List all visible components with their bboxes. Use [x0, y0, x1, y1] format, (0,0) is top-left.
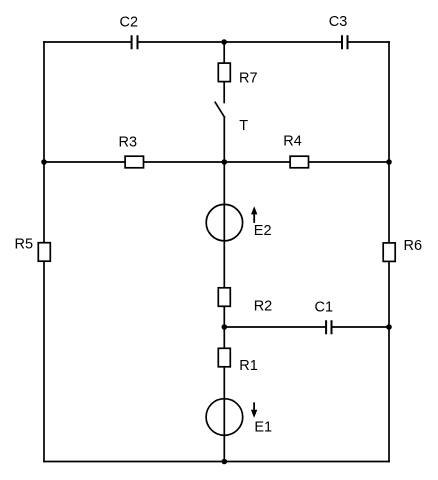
wire top rail left of C2: [44, 41, 131, 43]
capacitor C1 plates: [326, 320, 331, 334]
wire C1 branch left of plates: [224, 326, 325, 328]
source E2 arrow (up): [251, 206, 257, 223]
svg-text:C2: C2: [120, 14, 139, 30]
wire left rail: [43, 42, 45, 462]
junction center C1 branch: [222, 324, 228, 330]
svg-text:T: T: [239, 118, 248, 134]
switch T blade: [215, 102, 224, 117]
source E1 circle: [206, 399, 243, 436]
capacitor C3 plates: [342, 35, 348, 49]
resistor R5: [38, 243, 50, 262]
svg-text:R3: R3: [119, 134, 138, 150]
junction right C1 branch: [386, 324, 392, 330]
source E1 arrow (down): [251, 402, 257, 418]
svg-text:R7: R7: [239, 71, 258, 87]
junction top center: [221, 39, 227, 45]
wire center vertical lower (switch to bottom rail): [223, 117, 225, 461]
wire top rail between C2 and C3: [138, 41, 341, 43]
wire top rail right of C3: [348, 41, 389, 43]
resistor R7: [218, 63, 230, 82]
resistor R6: [383, 243, 395, 262]
wire middle horizontal: [44, 161, 389, 163]
resistor R1: [218, 348, 230, 367]
wire right rail: [388, 42, 390, 462]
wire center vertical upper (through R7 to switch): [223, 42, 225, 103]
svg-text:E2: E2: [254, 223, 272, 239]
capacitor C2 plates: [132, 35, 138, 49]
junction center middle: [222, 159, 228, 165]
svg-text:C3: C3: [329, 14, 348, 30]
svg-text:C1: C1: [315, 299, 334, 315]
junction bottom center: [222, 459, 228, 465]
source E2 circle: [206, 204, 242, 240]
resistor R4: [290, 156, 308, 168]
wire bottom rail: [44, 461, 389, 463]
junction right middle: [386, 159, 392, 165]
resistor R3: [125, 156, 143, 168]
svg-text:R2: R2: [254, 298, 273, 314]
svg-text:R1: R1: [239, 358, 258, 374]
resistor R2: [218, 288, 230, 307]
junction left middle: [41, 159, 47, 165]
svg-text:R5: R5: [15, 237, 34, 253]
svg-text:R4: R4: [283, 134, 302, 150]
svg-text:R6: R6: [404, 238, 423, 254]
svg-text:E1: E1: [254, 420, 272, 436]
wire C1 branch right of plates: [332, 326, 389, 328]
